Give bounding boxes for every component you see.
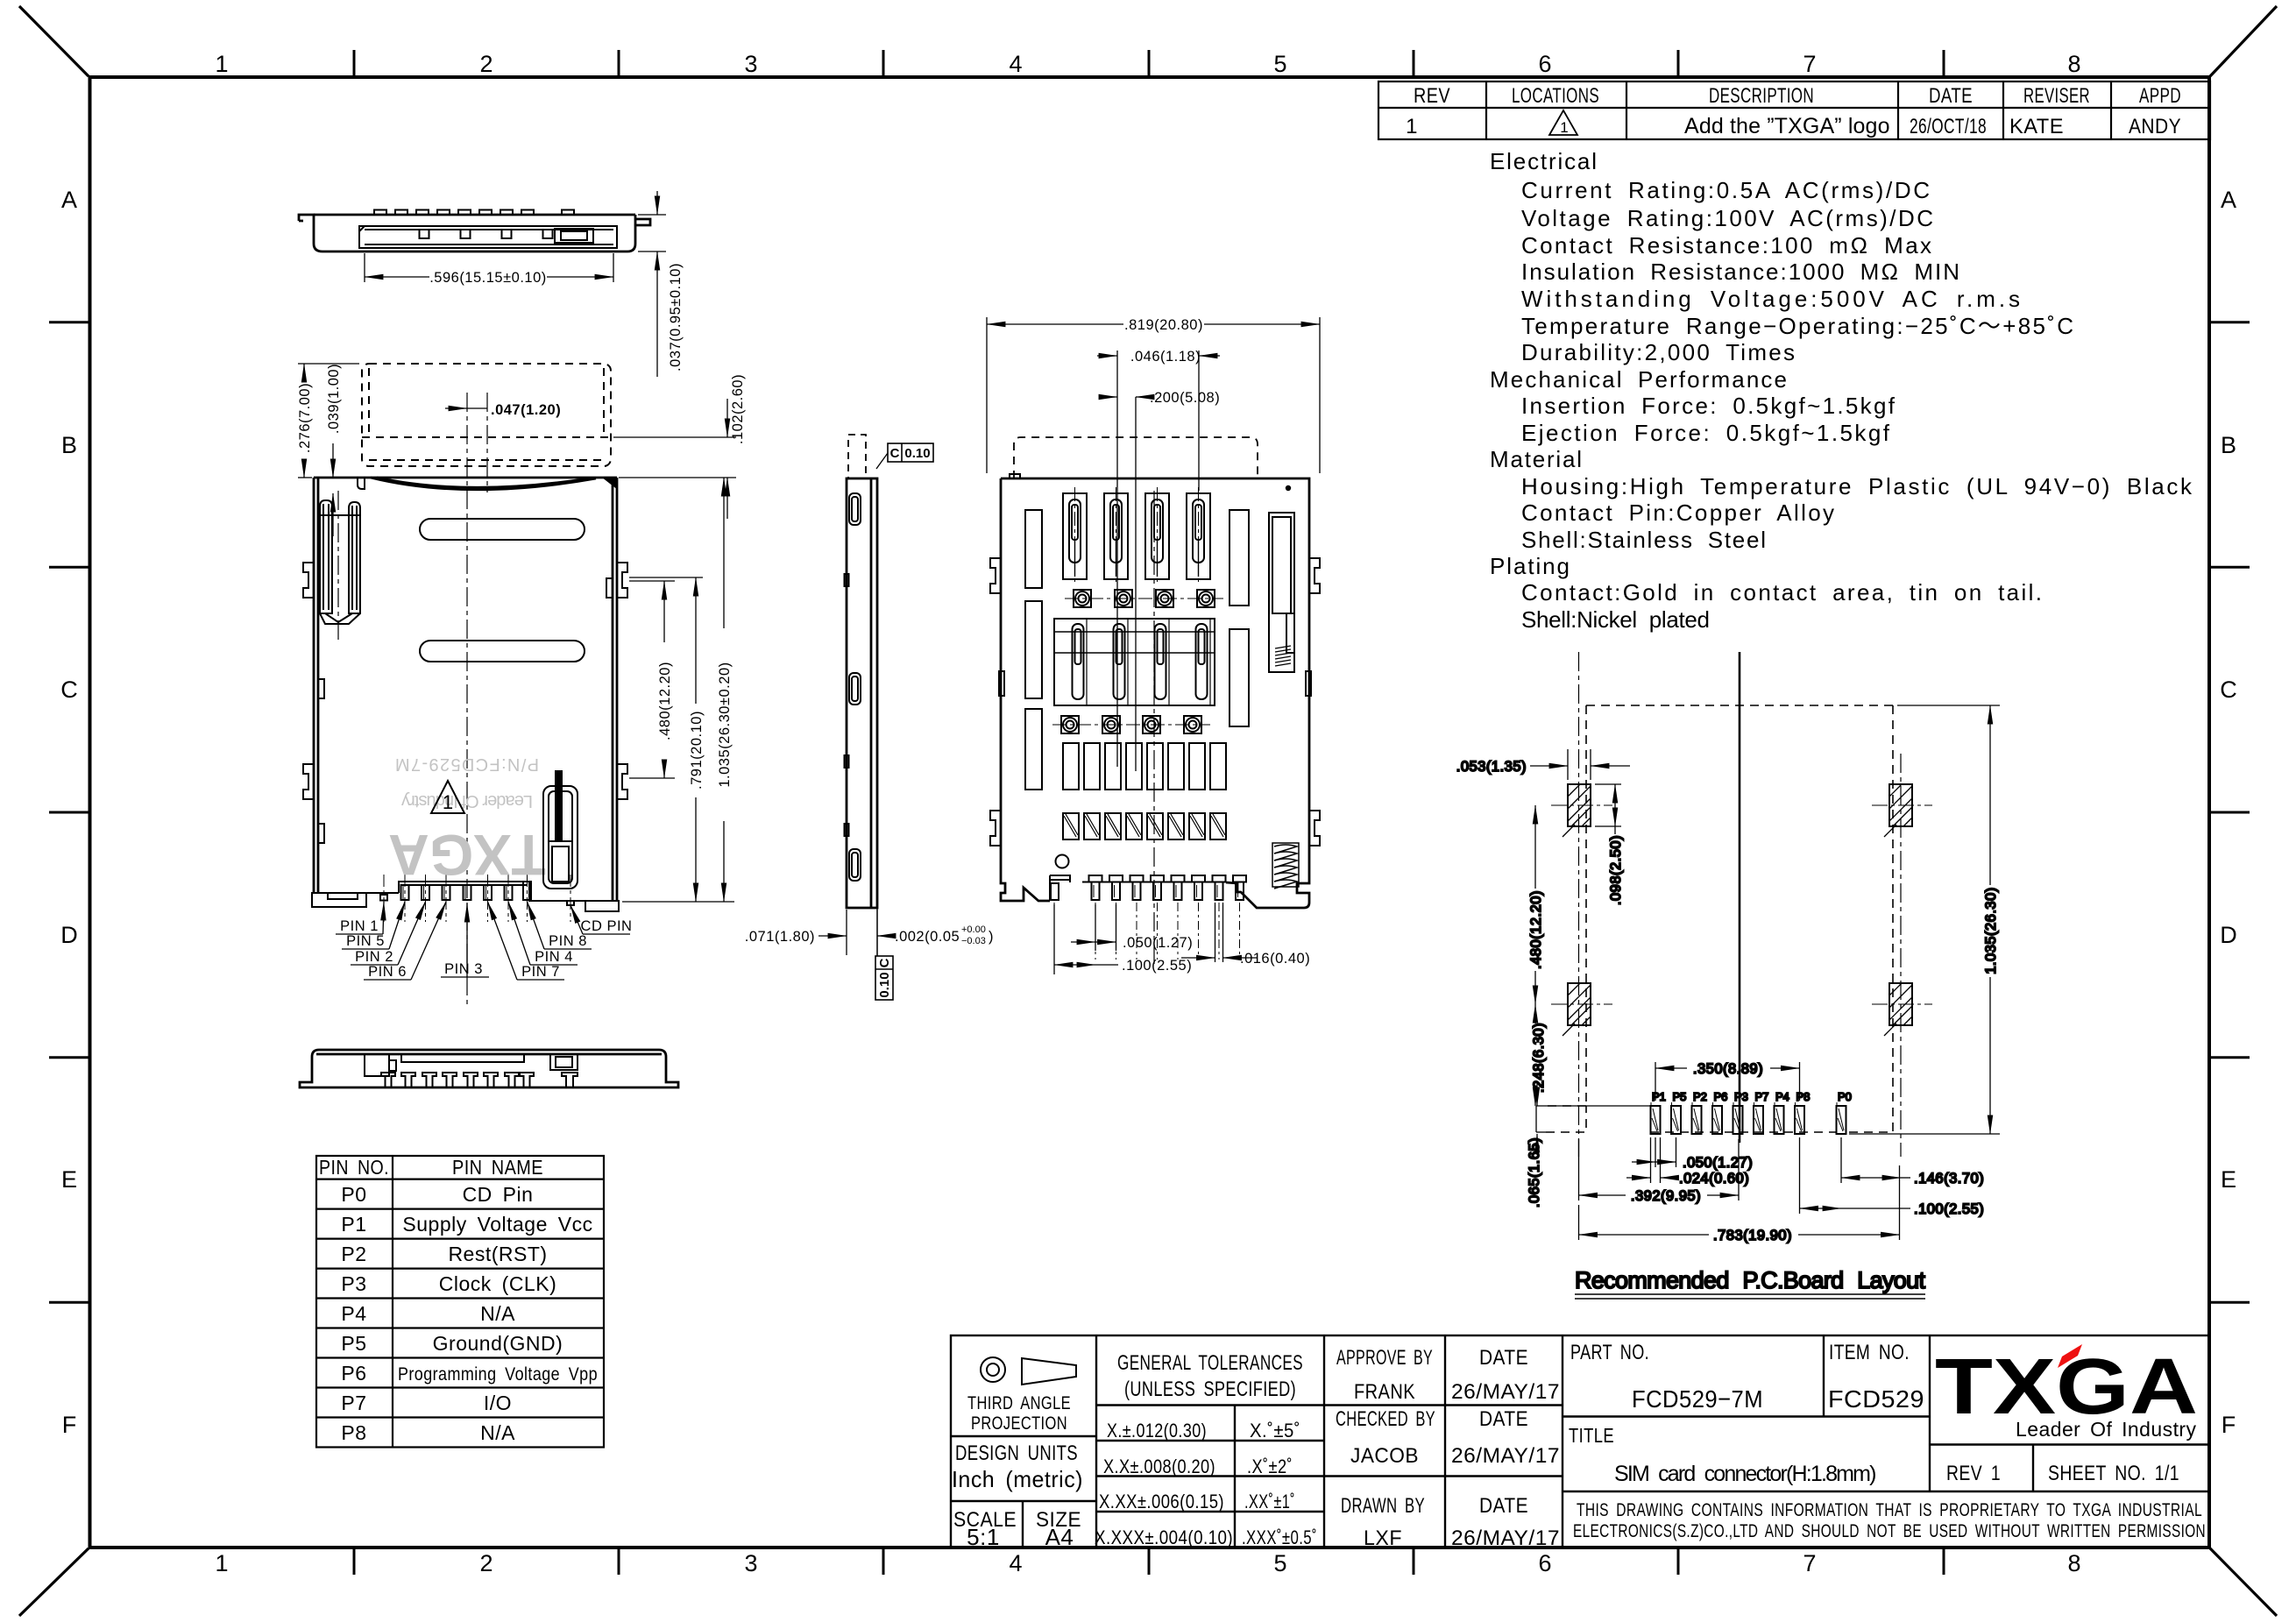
svg-text:F: F xyxy=(2222,1412,2236,1438)
svg-text:.819(20.80): .819(20.80) xyxy=(1124,317,1203,333)
svg-text:P7: P7 xyxy=(341,1392,366,1414)
svg-text:5: 5 xyxy=(1273,1550,1286,1576)
svg-text:7: 7 xyxy=(1803,1550,1816,1576)
svg-text:.100(2.55): .100(2.55) xyxy=(1914,1201,1984,1217)
svg-text:26/OCT/18: 26/OCT/18 xyxy=(1910,115,1987,138)
svg-text:D: D xyxy=(60,922,78,948)
dimension .016(0.40) xyxy=(1181,903,1257,962)
svg-text:X.XXX±.004(0.10): X.XXX±.004(0.10) xyxy=(1095,1526,1233,1548)
dimension .248(6.30) xyxy=(1534,1004,1536,1106)
svg-text:FCD529−7M: FCD529−7M xyxy=(1632,1385,1763,1413)
svg-text:Clock (CLK): Clock (CLK) xyxy=(439,1272,556,1295)
svg-text:26/MAY/17: 26/MAY/17 xyxy=(1451,1380,1560,1404)
svg-text:FCD529: FCD529 xyxy=(1828,1385,1924,1413)
svg-text:PIN 3: PIN 3 xyxy=(444,961,483,977)
svg-text:.071(1.80): .071(1.80) xyxy=(745,929,815,945)
svg-text:TITLE: TITLE xyxy=(1569,1424,1614,1447)
bottom open view of connector xyxy=(987,317,1320,974)
svg-text:.350(8.89): .350(8.89) xyxy=(1693,1061,1763,1077)
Recommended PC board layout xyxy=(1456,652,2000,1299)
pin leader labels xyxy=(336,902,630,980)
left ejector latch detail xyxy=(320,500,360,624)
svg-text:.596(15.15±0.10): .596(15.15±0.10) xyxy=(429,270,547,286)
datum flag C|0.10 (bottom, rotated) xyxy=(875,908,893,1000)
svg-text:GENERAL TOLERANCES: GENERAL TOLERANCES xyxy=(1117,1351,1303,1375)
svg-text:P1: P1 xyxy=(1652,1090,1666,1103)
svg-text:Programming Voltage Vpp: Programming Voltage Vpp xyxy=(398,1364,598,1385)
svg-text:.050(1.27): .050(1.27) xyxy=(1683,1155,1753,1171)
svg-text:.002(0.05: .002(0.05 xyxy=(895,929,960,945)
solder tail pads xyxy=(1063,743,1226,790)
centerlines xyxy=(338,393,487,1006)
hatched solder areas xyxy=(1063,813,1226,839)
svg-text:Contact:Gold in contact area,: Contact:Gold in contact area, tin on tai… xyxy=(1521,579,2043,606)
svg-text:.480(12.20): .480(12.20) xyxy=(657,662,673,740)
bottom mounting profile view xyxy=(300,1050,678,1087)
card stop latch detail xyxy=(543,771,578,889)
svg-text:Leader Of Industry: Leader Of Industry xyxy=(401,791,533,811)
svg-text:P6: P6 xyxy=(341,1362,366,1385)
dimension .024(0.60) xyxy=(1626,1137,1676,1183)
svg-text:THIRD ANGLE: THIRD ANGLE xyxy=(967,1393,1071,1413)
svg-text:ELECTRONICS(S.Z)CO.,LTD AND SH: ELECTRONICS(S.Z)CO.,LTD AND SHOULD NOT B… xyxy=(1573,1521,2206,1541)
svg-text:1.035(26.30±0.20): 1.035(26.30±0.20) xyxy=(717,662,733,787)
svg-text:.065(1.65): .065(1.65) xyxy=(1527,1137,1542,1208)
svg-text:.200(5.08): .200(5.08) xyxy=(1150,390,1220,406)
svg-text:5: 5 xyxy=(1273,51,1286,77)
svg-text:.392(9.95): .392(9.95) xyxy=(1631,1188,1701,1204)
svg-text:.480(12.20): .480(12.20) xyxy=(1528,890,1544,969)
dimension .596(15.15±0.10) xyxy=(365,253,613,282)
svg-text:C: C xyxy=(890,446,900,461)
svg-text:DATE: DATE xyxy=(1929,84,1973,108)
left guide slots xyxy=(1025,510,1042,790)
side profile view xyxy=(745,435,994,1000)
svg-text:PIN 6: PIN 6 xyxy=(368,964,407,980)
svg-text:A: A xyxy=(61,187,77,213)
svg-text:P1: P1 xyxy=(341,1213,366,1236)
dimension .146(3.70) xyxy=(1841,1137,1910,1183)
svg-text:0.10: 0.10 xyxy=(904,446,930,461)
svg-text:.039(1.00): .039(1.00) xyxy=(326,364,342,434)
svg-text:PART NO.: PART NO. xyxy=(1570,1341,1649,1364)
dimension .819(20.80) xyxy=(987,317,1320,473)
svg-text:Housing:High Temperature Plast: Housing:High Temperature Plastic (UL 94V… xyxy=(1521,473,2193,499)
svg-text:PIN 4: PIN 4 xyxy=(535,949,573,965)
svg-text:.XX˚±1˚: .XX˚±1˚ xyxy=(1244,1491,1295,1512)
svg-text:E: E xyxy=(2221,1166,2236,1193)
svg-text:A: A xyxy=(2221,187,2236,213)
PCB pin pads P1..P0 xyxy=(1651,1106,1846,1134)
svg-text:Shell:Nickel plated: Shell:Nickel plated xyxy=(1521,606,1711,633)
svg-text:P8: P8 xyxy=(341,1421,366,1444)
upper contact set xyxy=(1063,493,1210,579)
svg-text:F: F xyxy=(62,1412,77,1438)
svg-text:Inch (metric): Inch (metric) xyxy=(952,1466,1083,1492)
TXGA watermark (rotated) xyxy=(388,754,546,888)
svg-text:1: 1 xyxy=(1560,119,1568,136)
svg-text:.046(1.18): .046(1.18) xyxy=(1130,349,1201,365)
title block xyxy=(951,1335,2209,1550)
svg-text:1: 1 xyxy=(443,791,453,813)
svg-text:.XXX˚±0.5˚: .XXX˚±0.5˚ xyxy=(1242,1526,1317,1548)
top profile view of SIM connector shell xyxy=(299,191,684,377)
svg-text:REV 1: REV 1 xyxy=(1946,1462,2001,1485)
specification text xyxy=(1490,148,2193,633)
stamped slots xyxy=(420,519,585,540)
lower contact set xyxy=(1054,619,1215,705)
svg-text:APPD: APPD xyxy=(2139,84,2181,108)
svg-text:6: 6 xyxy=(1538,1550,1551,1576)
dimension 1.035(26.30±0.20) xyxy=(622,478,734,902)
dimension .276(7.00) xyxy=(298,364,359,478)
dimension .037(0.95±0.10) xyxy=(638,191,666,377)
svg-text:8: 8 xyxy=(2067,51,2080,77)
dimension .050(1.27) xyxy=(1071,904,1116,951)
svg-text:.100(2.55): .100(2.55) xyxy=(1122,958,1192,974)
dimension .053(1.35) xyxy=(1530,749,1630,780)
svg-text:2: 2 xyxy=(479,51,493,77)
shell side latch cutouts xyxy=(303,563,627,799)
svg-text:X.±.012(0.30): X.±.012(0.30) xyxy=(1107,1420,1207,1441)
svg-text:Current Rating:0.5A AC(rms)/DC: Current Rating:0.5A AC(rms)/DC xyxy=(1521,177,1931,203)
svg-text:PROJECTION: PROJECTION xyxy=(971,1413,1067,1434)
svg-text:P7: P7 xyxy=(1755,1090,1769,1103)
dimension .480(12.20) xyxy=(629,581,675,778)
svg-text:SIM card connector(H:1.8mm): SIM card connector(H:1.8mm) xyxy=(1614,1462,1877,1486)
svg-text:−0.03: −0.03 xyxy=(961,936,986,946)
svg-text:P4: P4 xyxy=(1775,1090,1789,1103)
svg-text:E: E xyxy=(61,1166,77,1193)
svg-text:.047(1.20): .047(1.20) xyxy=(491,402,561,418)
svg-text:Add the ”TXGA” logo: Add the ”TXGA” logo xyxy=(1684,114,1890,138)
svg-text:D: D xyxy=(2220,922,2237,948)
svg-text:1: 1 xyxy=(215,1550,228,1576)
svg-text:Electrical: Electrical xyxy=(1490,148,1598,174)
svg-text:P5: P5 xyxy=(1673,1090,1687,1103)
svg-text:.146(3.70): .146(3.70) xyxy=(1914,1171,1984,1186)
dimension .783(19.90) xyxy=(1579,1165,1900,1240)
svg-text:26/MAY/17: 26/MAY/17 xyxy=(1451,1526,1560,1550)
svg-text:P0: P0 xyxy=(1838,1090,1852,1103)
svg-text:P8: P8 xyxy=(1796,1090,1811,1103)
svg-text:Shell:Stainless Steel: Shell:Stainless Steel xyxy=(1521,527,1767,553)
svg-text:JACOB: JACOB xyxy=(1350,1444,1419,1468)
svg-text:LOCATIONS: LOCATIONS xyxy=(1512,84,1599,108)
svg-text:DESCRIPTION: DESCRIPTION xyxy=(1709,84,1814,108)
svg-text:THIS DRAWING CONTAINS INFORMAT: THIS DRAWING CONTAINS INFORMATION THAT I… xyxy=(1577,1500,2202,1520)
svg-text:4: 4 xyxy=(1009,1550,1022,1576)
svg-text:TXGA: TXGA xyxy=(388,823,546,888)
PCB mounting pads (hatched) xyxy=(1456,705,2000,1299)
svg-text:.050(1.27): .050(1.27) xyxy=(1123,935,1193,951)
svg-text:3: 3 xyxy=(744,1550,757,1576)
svg-text:+0.00: +0.00 xyxy=(961,924,986,935)
svg-text:1.035(26.30): 1.035(26.30) xyxy=(1983,887,1999,974)
svg-text:Contact Resistance:100 mΩ Max: Contact Resistance:100 mΩ Max xyxy=(1521,232,1932,259)
svg-text:5:1: 5:1 xyxy=(967,1524,1000,1550)
svg-text:N/A: N/A xyxy=(480,1421,515,1444)
svg-text:4: 4 xyxy=(1009,51,1022,77)
pin table xyxy=(316,1156,604,1448)
svg-text:DATE: DATE xyxy=(1479,1346,1528,1370)
svg-text:N/A: N/A xyxy=(480,1302,515,1325)
svg-text:Insulation Resistance:1000 MΩ: Insulation Resistance:1000 MΩ MIN xyxy=(1521,259,1960,285)
svg-text:7: 7 xyxy=(1803,51,1816,77)
svg-text:Rest(RST): Rest(RST) xyxy=(448,1243,547,1265)
svg-text:ITEM NO.: ITEM NO. xyxy=(1829,1341,1910,1364)
right side slots and spring xyxy=(1229,510,1294,726)
dimension .098(2.50) xyxy=(1595,784,1621,834)
dimension .100(2.55) pcb xyxy=(1800,1137,1911,1214)
svg-text:X.XX±.006(0.15): X.XX±.006(0.15) xyxy=(1099,1491,1224,1512)
contact weld pads row 2 xyxy=(1052,716,1210,733)
svg-text:C: C xyxy=(2220,676,2237,703)
svg-text:Durability:2,000 Times: Durability:2,000 Times xyxy=(1521,339,1796,365)
revision location triangle 1 xyxy=(1549,110,1577,135)
svg-text:I/O: I/O xyxy=(484,1392,512,1414)
dimension .071(1.80) xyxy=(818,910,890,955)
svg-text:(UNLESS SPECIFIED): (UNLESS SPECIFIED) xyxy=(1124,1378,1296,1401)
svg-text:Voltage Rating:100V AC(rms)/DC: Voltage Rating:100V AC(rms)/DC xyxy=(1521,205,1934,231)
dimension .480(12.20) pcb xyxy=(1534,805,1536,1004)
dimension .200(5.08) xyxy=(1101,397,1142,771)
svg-text:A4: A4 xyxy=(1045,1524,1074,1550)
main top view of connector xyxy=(297,364,746,1006)
svg-text:2: 2 xyxy=(479,1550,493,1576)
dimension .046(1.18) xyxy=(1097,351,1220,767)
svg-text:P3: P3 xyxy=(341,1272,366,1295)
svg-text:ANDY: ANDY xyxy=(2129,115,2181,138)
svg-text:X.˚±5˚: X.˚±5˚ xyxy=(1250,1420,1300,1441)
svg-text:PIN 7: PIN 7 xyxy=(521,964,560,980)
svg-text:.791(20.10): .791(20.10) xyxy=(689,711,705,790)
dimension .039(1.00) xyxy=(332,443,334,536)
svg-text:DRAWN BY: DRAWN BY xyxy=(1341,1494,1425,1518)
svg-text:Insertion Force: 0.5kgf~1.5kg: Insertion Force: 0.5kgf~1.5kgf xyxy=(1521,393,1896,419)
bottom contact pins row xyxy=(380,882,574,905)
dashed SIM card outline xyxy=(362,364,611,466)
svg-text:PIN 5: PIN 5 xyxy=(346,933,385,949)
dimension 1.035(26.30) pcb xyxy=(1849,705,2000,1134)
svg-text:FRANK: FRANK xyxy=(1354,1380,1415,1404)
svg-text:3: 3 xyxy=(744,51,757,77)
svg-text:Supply Voltage Vcc: Supply Voltage Vcc xyxy=(402,1213,592,1236)
svg-text:1: 1 xyxy=(215,51,228,77)
svg-text:6: 6 xyxy=(1538,51,1551,77)
svg-text:.098(2.50): .098(2.50) xyxy=(1608,835,1624,905)
dimension .350(8.89) xyxy=(1655,1062,1800,1101)
svg-text:CHECKED BY: CHECKED BY xyxy=(1336,1407,1435,1431)
svg-text:B: B xyxy=(2221,432,2236,458)
dimension .392(9.95) xyxy=(1579,1139,1740,1201)
datum flag C|0.10 (top) xyxy=(876,443,933,469)
svg-text:1: 1 xyxy=(1406,115,1418,138)
svg-text:): ) xyxy=(989,929,994,945)
svg-text:Recommended P.C.Board Layout: Recommended P.C.Board Layout xyxy=(1575,1267,1925,1293)
contact weld pads row 1 xyxy=(1065,590,1223,607)
svg-text:P/N:FCD529-7M: P/N:FCD529-7M xyxy=(395,754,539,774)
svg-text:.783(19.90): .783(19.90) xyxy=(1713,1228,1792,1243)
svg-text:P4: P4 xyxy=(341,1302,366,1325)
svg-text:26/MAY/17: 26/MAY/17 xyxy=(1451,1444,1560,1468)
svg-text:Temperature Range−Operating:−2: Temperature Range−Operating:−25˚C～+85˚C xyxy=(1521,313,2074,339)
svg-text:Ejection Force: 0.5kgf~1.5kgf: Ejection Force: 0.5kgf~1.5kgf xyxy=(1521,420,1890,446)
dimension .050(1.27) pcb xyxy=(1632,1137,1676,1167)
svg-text:P0: P0 xyxy=(341,1183,366,1206)
svg-text:Plating: Plating xyxy=(1490,553,1570,579)
svg-text:B: B xyxy=(61,432,77,458)
svg-text:PIN 8: PIN 8 xyxy=(549,933,587,949)
svg-text:REV: REV xyxy=(1414,84,1450,108)
dimension .100(2.55) xyxy=(1054,904,1118,974)
svg-text:Ground(GND): Ground(GND) xyxy=(433,1332,563,1355)
svg-text:8: 8 xyxy=(2067,1550,2080,1576)
svg-text:.053(1.35): .053(1.35) xyxy=(1456,759,1527,775)
svg-text:LXF: LXF xyxy=(1364,1526,1402,1550)
dimension .791(20.10) xyxy=(629,577,703,902)
bottom terminal pins xyxy=(1050,875,1246,900)
svg-text:.037(0.95±0.10): .037(0.95±0.10) xyxy=(668,263,684,372)
svg-text:APPROVE BY: APPROVE BY xyxy=(1336,1346,1433,1370)
dimension .102(2.60) xyxy=(613,399,736,519)
svg-text:C: C xyxy=(877,958,892,967)
svg-text:CD Pin: CD Pin xyxy=(463,1183,534,1206)
svg-text:DATE: DATE xyxy=(1479,1407,1528,1431)
svg-text:REVISER: REVISER xyxy=(2023,84,2090,108)
revision table xyxy=(1378,81,2210,139)
dimension .047(1.20) xyxy=(445,407,487,409)
svg-text:0.10: 0.10 xyxy=(877,972,892,997)
coil spring xyxy=(1272,843,1299,889)
dimension .065(1.65) xyxy=(1536,1081,1538,1150)
svg-text:Withstanding Voltage:500V AC r: Withstanding Voltage:500V AC r.m.s xyxy=(1521,286,2021,312)
svg-text:.016(0.40): .016(0.40) xyxy=(1240,951,1310,967)
triangle note marker 1 xyxy=(431,781,464,813)
svg-text:P5: P5 xyxy=(341,1332,366,1355)
svg-text:PIN 2: PIN 2 xyxy=(355,949,393,965)
svg-text:DESIGN UNITS: DESIGN UNITS xyxy=(955,1441,1078,1465)
svg-text:.102(2.60): .102(2.60) xyxy=(730,374,746,444)
TXGA logo xyxy=(1935,1343,2198,1441)
svg-text:.X˚±2˚: .X˚±2˚ xyxy=(1247,1456,1293,1477)
svg-text:.276(7.00): .276(7.00) xyxy=(297,383,313,453)
svg-text:.248(6.30): .248(6.30) xyxy=(1531,1023,1547,1093)
svg-text:X.X±.008(0.20): X.X±.008(0.20) xyxy=(1103,1456,1215,1477)
svg-text:PIN NO.: PIN NO. xyxy=(319,1156,389,1179)
svg-text:P3: P3 xyxy=(1734,1090,1748,1103)
svg-text:Material: Material xyxy=(1490,446,1583,472)
svg-text:PIN 1: PIN 1 xyxy=(340,918,379,934)
svg-text:P6: P6 xyxy=(1714,1090,1728,1103)
svg-text:C: C xyxy=(60,676,78,703)
svg-text:SHEET NO. 1/1: SHEET NO. 1/1 xyxy=(2048,1462,2179,1485)
svg-text:DATE: DATE xyxy=(1479,1494,1528,1518)
svg-text:KATE: KATE xyxy=(2009,115,2064,138)
svg-text:P2: P2 xyxy=(341,1243,366,1265)
svg-text:CD PIN: CD PIN xyxy=(581,918,633,934)
svg-text:Mechanical Performance: Mechanical Performance xyxy=(1490,366,1788,393)
svg-text:PIN NAME: PIN NAME xyxy=(452,1156,543,1179)
svg-text:P2: P2 xyxy=(1693,1090,1707,1103)
third angle projection symbol xyxy=(981,1357,1005,1382)
svg-text:Leader Of Industry: Leader Of Industry xyxy=(2016,1418,2197,1441)
